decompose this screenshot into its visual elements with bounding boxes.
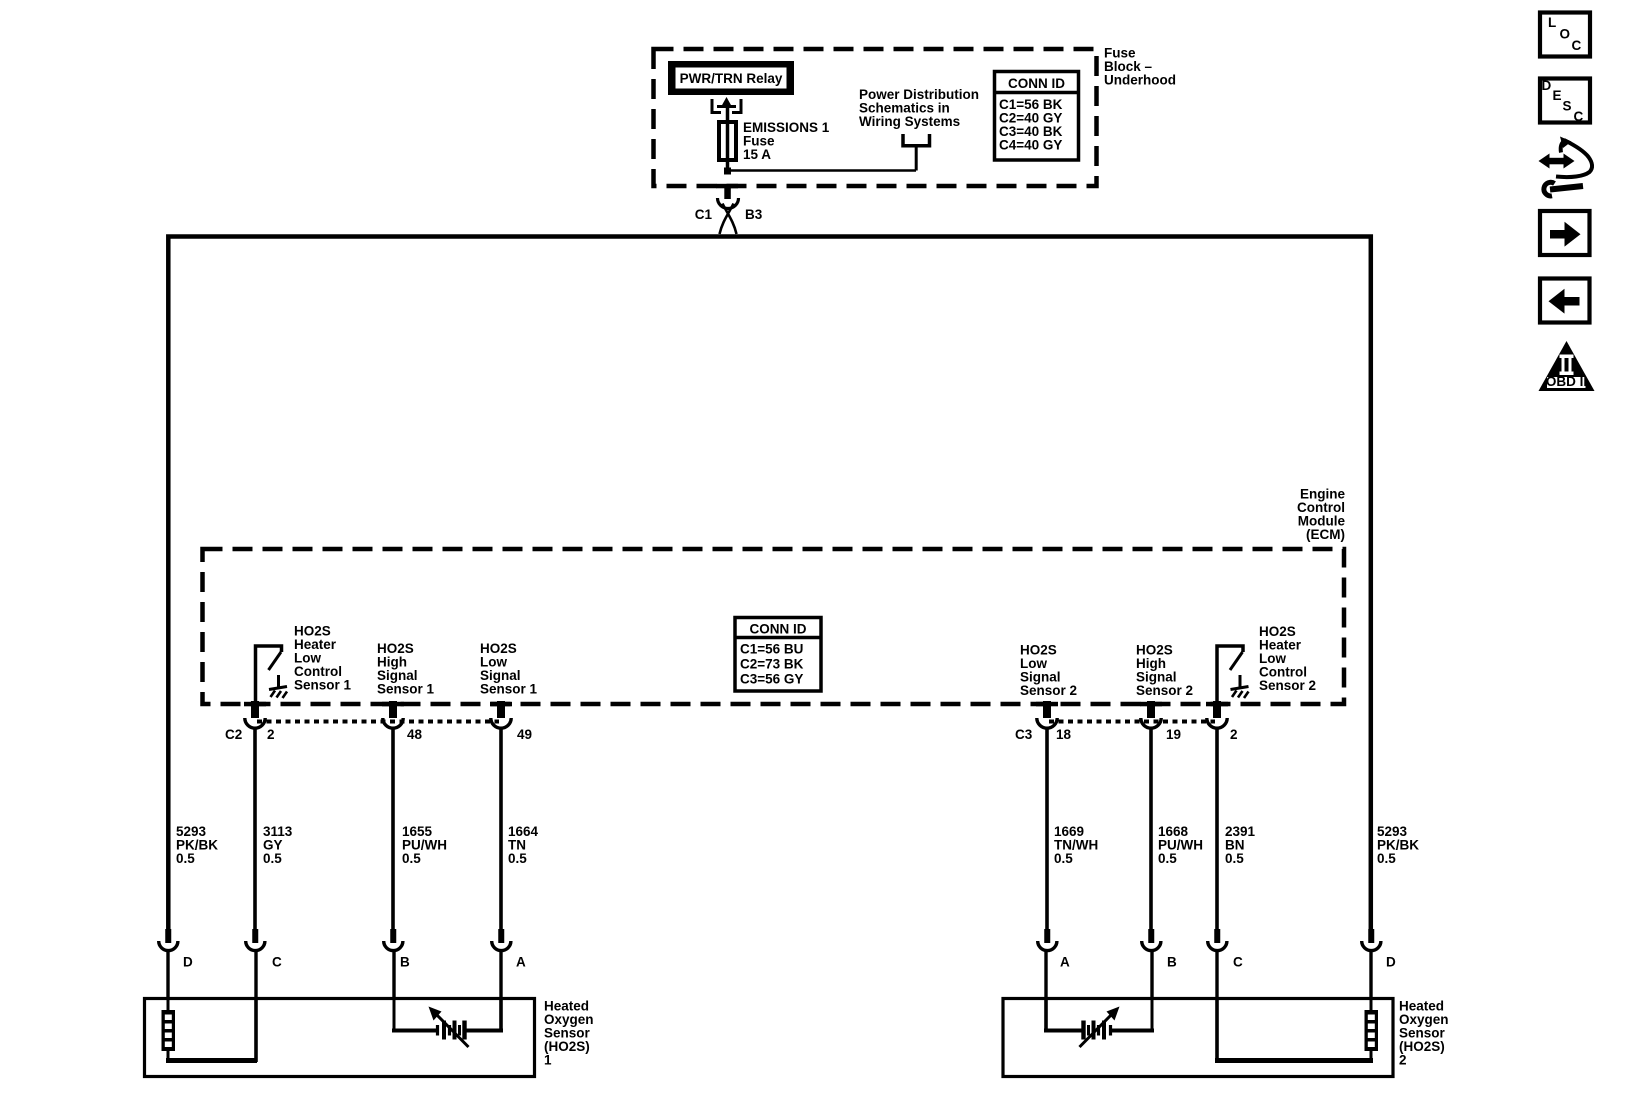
svg-text:18: 18 xyxy=(1056,727,1072,742)
svg-text:L: L xyxy=(1548,15,1556,30)
svg-text:0.5: 0.5 xyxy=(402,851,421,866)
svg-text:D: D xyxy=(183,955,193,970)
svg-text:2: 2 xyxy=(1230,727,1238,742)
svg-text:O: O xyxy=(1560,27,1571,42)
svg-text:S: S xyxy=(1563,99,1572,114)
svg-text:2: 2 xyxy=(267,727,275,742)
svg-text:B3: B3 xyxy=(745,207,763,222)
svg-text:48: 48 xyxy=(407,727,423,742)
svg-text:D: D xyxy=(1542,78,1552,93)
svg-text:(ECM): (ECM) xyxy=(1306,527,1345,542)
svg-text:C2=73 BK: C2=73 BK xyxy=(740,657,804,672)
svg-text:1: 1 xyxy=(544,1053,552,1068)
svg-text:0.5: 0.5 xyxy=(1225,851,1244,866)
svg-text:C4=40 GY: C4=40 GY xyxy=(999,137,1062,152)
svg-text:C: C xyxy=(272,955,282,970)
svg-text:Wiring Systems: Wiring Systems xyxy=(859,114,960,129)
svg-text:D: D xyxy=(1386,955,1396,970)
svg-text:C1=56 BU: C1=56 BU xyxy=(740,642,803,657)
svg-text:0.5: 0.5 xyxy=(508,851,527,866)
svg-text:E: E xyxy=(1553,88,1562,103)
svg-text:OBD II: OBD II xyxy=(1546,374,1587,389)
svg-text:Sensor 2: Sensor 2 xyxy=(1136,683,1193,698)
svg-text:C: C xyxy=(1233,955,1243,970)
svg-text:0.5: 0.5 xyxy=(1377,851,1396,866)
svg-text:Sensor 1: Sensor 1 xyxy=(294,678,352,693)
svg-text:C2: C2 xyxy=(225,727,242,742)
svg-text:19: 19 xyxy=(1166,727,1181,742)
svg-text:Sensor 1: Sensor 1 xyxy=(377,682,435,697)
svg-text:15 A: 15 A xyxy=(743,147,771,162)
svg-text:Underhood: Underhood xyxy=(1104,73,1176,88)
svg-text:0.5: 0.5 xyxy=(1158,851,1177,866)
svg-text:C3: C3 xyxy=(1015,727,1033,742)
svg-text:A: A xyxy=(1060,955,1070,970)
svg-text:PWR/TRN Relay: PWR/TRN Relay xyxy=(680,71,783,86)
svg-text:C3=56 GY: C3=56 GY xyxy=(740,672,803,687)
svg-text:B: B xyxy=(400,955,410,970)
svg-text:0.5: 0.5 xyxy=(176,851,195,866)
svg-text:2: 2 xyxy=(1399,1053,1407,1068)
svg-text:0.5: 0.5 xyxy=(263,851,282,866)
svg-text:49: 49 xyxy=(517,727,532,742)
svg-text:B: B xyxy=(1167,955,1177,970)
svg-text:0.5: 0.5 xyxy=(1054,851,1073,866)
svg-text:C1: C1 xyxy=(695,207,713,222)
svg-text:Sensor 2: Sensor 2 xyxy=(1020,683,1077,698)
svg-text:CONN ID: CONN ID xyxy=(750,622,807,637)
svg-text:C: C xyxy=(1572,38,1582,53)
svg-text:Sensor 2: Sensor 2 xyxy=(1259,678,1316,693)
svg-text:Sensor 1: Sensor 1 xyxy=(480,682,538,697)
svg-text:A: A xyxy=(516,955,526,970)
svg-text:CONN ID: CONN ID xyxy=(1008,76,1065,91)
svg-text:C: C xyxy=(1574,109,1584,124)
